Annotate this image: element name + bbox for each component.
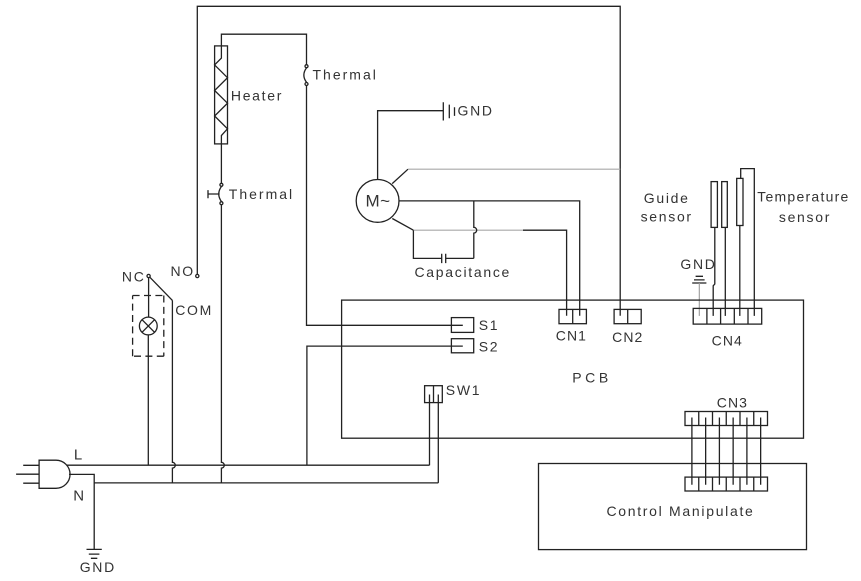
wire: S2 to L line [307, 346, 463, 465]
svg-text:COM: COM [175, 302, 213, 318]
wire: heater bottom to thermal T2 [220, 144, 222, 183]
wire: N line to SW1 pin2 [94, 482, 438, 484]
svg-text:S2: S2 [479, 339, 500, 355]
ground chassis (motor) [443, 102, 493, 120]
wire: heater top to thermal T1 [221, 34, 306, 64]
switch SW1 [425, 382, 482, 483]
switch blade NC-COM [150, 277, 173, 300]
svg-text:M~: M~ [366, 191, 391, 210]
svg-text:Thermal: Thermal [229, 186, 294, 202]
wire: thermal T1 down to S1 [307, 86, 463, 326]
heater R-HTR [215, 46, 284, 144]
wire: N from plug, step down [69, 474, 94, 549]
wire: grey segment of lower line [413, 229, 523, 231]
wire: lamp to L line [147, 335, 149, 466]
guide sensor electrode 1 [711, 182, 717, 316]
svg-text:GND: GND [680, 256, 716, 272]
svg-text:Thermal: Thermal [313, 66, 378, 82]
svg-text:Control Manipulate: Control Manipulate [606, 503, 754, 519]
lamp LP1 dashed enclosure [133, 296, 164, 357]
wire: L line from plug to SW1 pin1 [67, 464, 430, 466]
wire: dark segment down to CN1 pin1 [523, 230, 567, 316]
svg-text:CN3: CN3 [717, 395, 748, 411]
switch S1 [451, 317, 499, 333]
wire: motor upper diagonal [392, 169, 408, 183]
svg-text:NO: NO [171, 263, 195, 279]
svg-text:PCB: PCB [572, 370, 612, 386]
svg-text:GND: GND [458, 103, 494, 119]
wire: grey line to CN2 junction [408, 168, 620, 170]
svg-text:Heater: Heater [231, 88, 283, 104]
svg-text:S1: S1 [479, 317, 500, 333]
ground (CN4) [680, 256, 716, 283]
control manipulate board [539, 464, 807, 550]
wire: motor top to chassis ground [378, 111, 444, 180]
wire: NC to lamp [148, 278, 150, 318]
wire: CN3 ribbon wires [692, 418, 761, 485]
node NC [122, 269, 150, 285]
capacitor C1 [413, 201, 511, 280]
svg-text:N: N [73, 487, 86, 504]
connector CN2 [612, 309, 643, 345]
wire: motor lower diagonal [392, 219, 413, 231]
switch S2 [451, 339, 499, 355]
thermal switch T2 with manual reset [208, 183, 294, 204]
label guide sensor [641, 190, 693, 224]
svg-text:Guide: Guide [644, 190, 690, 206]
wire: thermal T2 down to N line, hop over L line [221, 205, 224, 483]
temperature sensor electrode [737, 169, 755, 316]
connector CN3 (PCB side) [685, 395, 768, 426]
connector CN1 [556, 309, 587, 343]
PCB board [342, 300, 804, 438]
svg-text:CN2: CN2 [612, 329, 643, 345]
svg-text:SW1: SW1 [446, 382, 481, 398]
wire: COM down to N line, hop over L line [172, 300, 175, 483]
lamp LP1 [139, 317, 157, 335]
svg-text:GND: GND [80, 559, 116, 575]
svg-text:L: L [74, 447, 84, 464]
svg-text:sensor: sensor [641, 208, 693, 224]
connector CN3 mate (control side) [685, 477, 768, 491]
wire: ground to CN4 pin1 (grey) [698, 283, 700, 316]
svg-text:NC: NC [122, 269, 146, 285]
svg-text:sensor: sensor [779, 209, 831, 225]
ground (mains) [80, 549, 116, 575]
plug P1 [16, 460, 70, 488]
svg-text:Temperature: Temperature [757, 188, 849, 204]
svg-text:CN4: CN4 [712, 333, 743, 349]
svg-text:CN1: CN1 [556, 327, 587, 343]
label temperature sensor [757, 188, 849, 225]
svg-text:Capacitance: Capacitance [415, 264, 512, 280]
node NO [171, 263, 199, 279]
motor M [356, 180, 399, 223]
thermal switch T1 [304, 65, 378, 86]
wire: motor middle to CN1 pin2 [399, 201, 580, 316]
guide sensor electrode 2 [722, 182, 728, 316]
wire: NO terminal up, across top frame, down to CN2 [197, 6, 620, 316]
connector CN4 [693, 308, 762, 348]
